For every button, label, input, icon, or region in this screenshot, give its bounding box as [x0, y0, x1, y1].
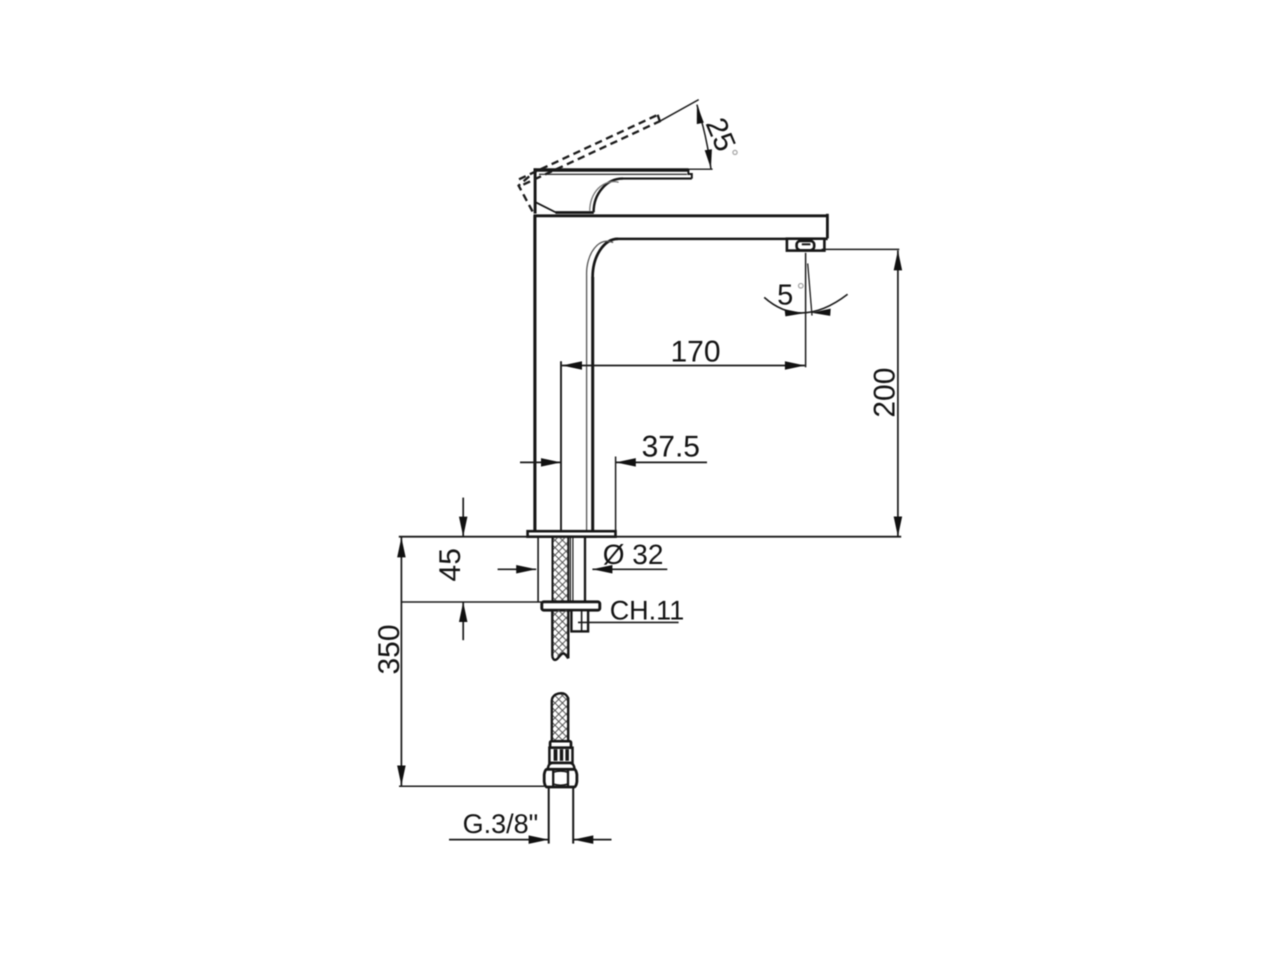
- crimped ferrule with ribs: [549, 748, 572, 763]
- angular dimension 25 degrees: [661, 100, 713, 170]
- dimension 200: [822, 249, 900, 536]
- base plate on countertop: [528, 531, 616, 537]
- hex nut of hose end: [544, 769, 577, 787]
- degree mark for 5: [799, 284, 804, 289]
- dimension 170: [561, 253, 806, 531]
- svg-text:350: 350: [373, 624, 406, 674]
- dimension diameter 32: [498, 568, 668, 570]
- svg-text:CH.11: CH.11: [610, 595, 685, 625]
- G3/8 male pipe end: [549, 787, 574, 844]
- dimension 37.5: [520, 457, 707, 532]
- flare collar above hex nut: [548, 763, 575, 769]
- dimension G.3/8": [449, 839, 612, 841]
- mounting washer: [542, 602, 600, 610]
- dashed handle rotated 25 degrees (open position): [519, 115, 661, 214]
- countertop line: [399, 536, 901, 538]
- svg-text:Ø 32: Ø 32: [603, 539, 664, 570]
- mounting nut (CH.11): [571, 610, 588, 631]
- dimension 45: [402, 498, 542, 641]
- faucet handle (lever, side view): [534, 168, 692, 213]
- svg-text:5: 5: [777, 280, 793, 312]
- hose below washer with break: [552, 610, 568, 665]
- lower hose segment: [552, 693, 568, 741]
- dimension 350: [399, 537, 544, 786]
- threaded shank with flexible hose below base: [538, 537, 585, 602]
- svg-text:G.3/8": G.3/8": [463, 809, 539, 839]
- hose collar: [550, 741, 571, 748]
- degree mark for 25: [733, 150, 737, 154]
- faucet body: top bar and riser: [534, 214, 828, 532]
- svg-text:200: 200: [868, 368, 901, 418]
- aerator at spout outlet: [787, 239, 825, 251]
- svg-text:45: 45: [434, 548, 467, 581]
- angular dimension 5 degrees at spout: [764, 263, 847, 315]
- svg-text:170: 170: [670, 336, 720, 369]
- label CH.11: [578, 621, 679, 623]
- svg-text:37.5: 37.5: [642, 431, 700, 464]
